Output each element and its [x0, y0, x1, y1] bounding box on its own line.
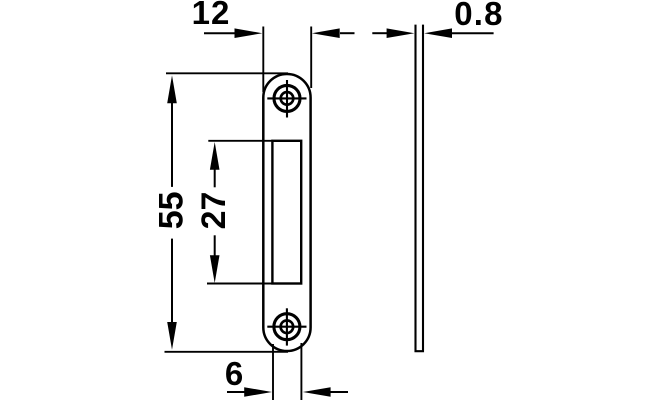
dim 27 arrow up [210, 142, 220, 170]
dim 27 arrow down [210, 255, 220, 283]
dim 55 extension line top [166, 72, 288, 74]
dim 27 line upper segment [214, 169, 216, 188]
dim 12 extension line right [310, 27, 312, 89]
svg-text:27: 27 [195, 192, 233, 230]
dim 55 arrow down [167, 322, 177, 350]
bottom screw hole outer circle [274, 314, 300, 340]
top screw hole crosshair vertical [286, 80, 288, 118]
top screw hole crosshair horizontal [267, 97, 306, 99]
dim 0.8 arrow right (points left) [424, 28, 452, 38]
dim 55 line upper segment [171, 102, 173, 187]
dim 6 extension line right [300, 343, 302, 400]
dim 55 arrow up [167, 75, 177, 103]
svg-text:0.8: 0.8 [454, 0, 503, 32]
dim 12 line right segment [340, 32, 355, 34]
dim 12 arrow right (points left) [312, 28, 340, 38]
dim 27 line lower segment [214, 235, 216, 256]
bottom screw hole crosshair vertical [286, 308, 288, 345]
dim 6 extension line left [272, 344, 274, 400]
dim 6 arrow left (points right) [244, 387, 272, 397]
side view plate (thickness) [416, 25, 424, 352]
dim 12 line left segment [204, 32, 236, 34]
dim 6 arrow right (points left) [303, 387, 331, 397]
latch slot cutout [272, 141, 301, 284]
svg-text:6: 6 [225, 355, 243, 392]
dim 12 extension line left [262, 27, 264, 93]
dim 0.8 line right segment [452, 32, 494, 34]
dim 27 extension line bottom [207, 283, 273, 285]
dim 55 extension line bottom [165, 351, 289, 353]
dim 55 line lower segment [171, 239, 173, 324]
dim 0.8 arrow left (points right) [387, 28, 415, 38]
dim 6 line right segment [331, 391, 349, 393]
top screw hole inner circle [281, 92, 294, 105]
dim 27 extension line top [208, 140, 273, 142]
top screw hole outer circle [274, 85, 300, 111]
svg-text:55: 55 [153, 191, 191, 229]
bottom screw hole crosshair horizontal [267, 326, 306, 328]
bottom screw hole inner circle [281, 320, 294, 333]
dim 0.8 line left segment [372, 32, 387, 34]
strike plate front view outline [263, 74, 310, 351]
svg-text:12: 12 [192, 0, 231, 31]
dim 6 line left segment [227, 391, 246, 393]
dim 12 arrow left (points right) [235, 28, 263, 38]
